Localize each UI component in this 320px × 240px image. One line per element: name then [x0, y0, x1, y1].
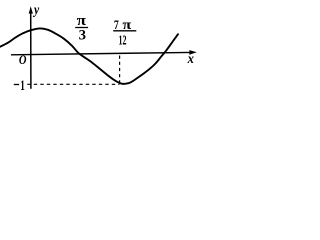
svg-text:7: 7 — [114, 17, 119, 32]
svg-text:12: 12 — [119, 34, 127, 49]
svg-text:y: y — [32, 3, 40, 18]
dashed vertical line at 7pi/12 — [119, 56, 121, 84]
dashed horizontal line y=-1 — [27, 83, 119, 85]
y-axis — [30, 12, 32, 89]
svg-text:3: 3 — [79, 28, 86, 44]
fraction pi/3 bar — [75, 27, 88, 29]
svg-text:O: O — [19, 52, 27, 67]
fraction 7pi/12 bar — [113, 30, 136, 32]
y-axis arrowhead — [29, 6, 33, 13]
curve — [0, 28, 178, 83]
svg-text:1: 1 — [20, 78, 25, 94]
label -1 minus — [14, 84, 19, 86]
x-axis — [11, 52, 191, 54]
x-axis arrowhead — [189, 50, 197, 55]
svg-text:x: x — [187, 52, 194, 67]
